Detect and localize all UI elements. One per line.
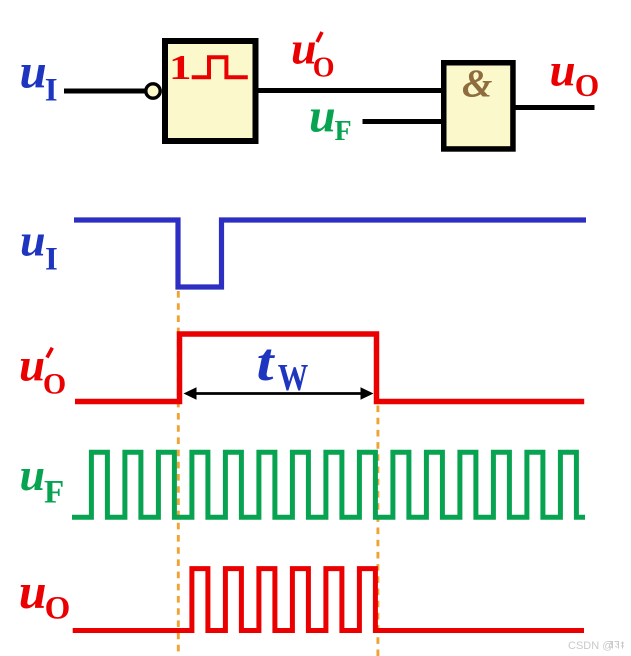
- svg-text:I: I: [45, 242, 58, 278]
- svg-text:u: u: [19, 563, 47, 619]
- svg-text:O: O: [45, 591, 71, 627]
- svg-text:O: O: [575, 68, 600, 103]
- svg-text:F: F: [335, 116, 352, 147]
- svg-text:1: 1: [169, 48, 192, 87]
- svg-text:O: O: [43, 368, 66, 401]
- svg-text:u: u: [20, 44, 47, 99]
- svg-text:u: u: [20, 215, 46, 266]
- svg-text:W: W: [278, 357, 309, 399]
- svg-text:&: &: [462, 62, 492, 105]
- svg-text:t: t: [257, 332, 276, 392]
- svg-text:I: I: [45, 73, 58, 109]
- svg-text:CSDN @: CSDN @: [568, 640, 613, 652]
- svg-text:u: u: [550, 45, 576, 97]
- svg-text:u: u: [19, 340, 45, 392]
- svg-text:u: u: [20, 449, 46, 500]
- svg-text:u: u: [309, 90, 336, 143]
- svg-text:O: O: [313, 52, 335, 83]
- svg-text:F: F: [44, 475, 64, 511]
